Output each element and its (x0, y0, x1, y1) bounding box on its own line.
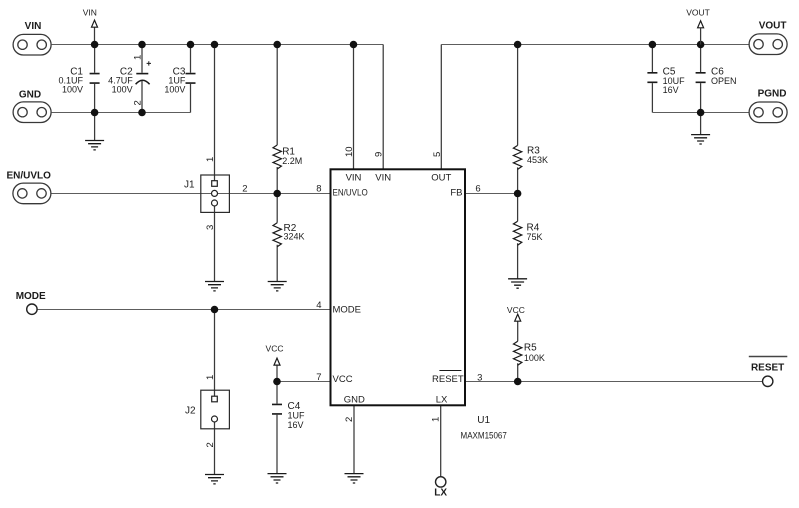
jumper J2 (201, 390, 230, 429)
wire R1 leads (276, 45, 278, 194)
svg-text:VIN: VIN (25, 21, 42, 32)
ground (below J2) (205, 475, 224, 484)
svg-text:VCC: VCC (266, 344, 284, 354)
svg-text:RESET: RESET (432, 374, 464, 385)
label R1 value (282, 147, 302, 166)
svg-text:7: 7 (316, 372, 321, 383)
svg-text:R5: R5 (524, 342, 537, 353)
ground (below U1 GND pin) (345, 474, 364, 483)
wire MODE to J2 pin1 (214, 310, 216, 397)
wire FB net pin 6 (465, 193, 518, 195)
svg-text:PGND: PGND (758, 89, 787, 100)
resistor R1 (273, 145, 281, 169)
ground (below C4) (268, 474, 287, 483)
power symbol VCC (R5) (515, 314, 521, 321)
wire R4 leads (517, 194, 519, 279)
capacitor C6 (696, 73, 706, 83)
wire VCC net to pin 7 (277, 381, 331, 383)
svg-text:1UF: 1UF (288, 411, 306, 421)
svg-text:FB: FB (450, 188, 462, 199)
wire J1 pin1 to VIN rail (214, 45, 216, 182)
wire C2 leads (141, 45, 143, 113)
svg-text:VIN: VIN (346, 173, 362, 184)
svg-text:RESET: RESET (751, 362, 784, 373)
svg-text:1: 1 (205, 157, 216, 162)
wire pin 2 GND to ground (353, 406, 355, 474)
label C2 value (108, 67, 133, 95)
node RESET / R5 (514, 378, 522, 386)
label R4 value (527, 222, 543, 242)
capacitor C4 (272, 404, 282, 414)
connector VOUT (749, 34, 787, 55)
svg-text:MODE: MODE (16, 291, 46, 302)
label C3 value (164, 67, 186, 95)
svg-text:MODE: MODE (333, 305, 362, 316)
capacitor C3 (186, 74, 196, 84)
svg-text:8: 8 (316, 184, 321, 195)
node VIN rail / C2 (138, 41, 146, 49)
svg-text:100V: 100V (112, 84, 133, 94)
resistor R4 (513, 221, 521, 245)
wire C5 leads (651, 45, 653, 113)
label C5 value (663, 67, 686, 96)
node PGND / C6 (697, 109, 705, 117)
resistor R5 (514, 341, 522, 365)
svg-text:LX: LX (434, 487, 447, 498)
node GND rail / C2 (138, 109, 146, 117)
svg-text:2: 2 (205, 442, 216, 447)
label C4 value (288, 401, 306, 430)
wire R2 leads (276, 194, 278, 282)
wire pin 9 to VIN rail (382, 45, 384, 170)
testpoint MODE (27, 304, 37, 314)
svg-text:OUT: OUT (431, 173, 451, 184)
connector PGND (749, 102, 787, 123)
label R5 value (524, 342, 545, 363)
svg-text:3: 3 (477, 372, 482, 383)
capacitor C2 (polarized) (136, 73, 148, 75)
label C6 value (711, 67, 737, 87)
connector VIN (13, 34, 51, 55)
svg-text:324K: 324K (284, 232, 305, 242)
resistor R3 (513, 145, 521, 169)
node FB / R3 R4 (514, 190, 522, 198)
label R3 value (527, 145, 548, 165)
node VOUT rail / C6 (697, 41, 705, 49)
wire J1 pin3 to ground (214, 206, 216, 282)
wire C5 bottom to PGND node (652, 112, 700, 114)
svg-text:5: 5 (432, 152, 443, 157)
label C1 value (58, 67, 83, 95)
node GND rail / C1 (91, 109, 99, 117)
svg-text:VOUT: VOUT (759, 21, 787, 32)
svg-text:GND: GND (19, 90, 41, 101)
svg-text:453K: 453K (527, 155, 548, 165)
wire J2 pin2 to ground (214, 422, 216, 475)
svg-text:VCC: VCC (507, 305, 525, 315)
wire MODE net (37, 309, 331, 311)
svg-text:2: 2 (344, 417, 355, 422)
svg-text:1: 1 (133, 55, 144, 60)
svg-text:100V: 100V (62, 84, 83, 94)
power symbol VIN (92, 20, 98, 27)
ground (below R2) (268, 282, 287, 291)
connector GND (13, 102, 51, 123)
svg-text:2: 2 (242, 184, 247, 195)
svg-text:16V: 16V (663, 85, 679, 95)
svg-text:MAXM15067: MAXM15067 (461, 431, 507, 442)
resistor R2 (273, 223, 281, 247)
node VIN rail / R1 (273, 41, 281, 49)
svg-text:OPEN: OPEN (711, 76, 737, 86)
svg-text:EN/UVLO: EN/UVLO (7, 171, 52, 182)
svg-text:3: 3 (205, 225, 216, 230)
svg-text:100V: 100V (164, 84, 185, 94)
wire R5 leads (517, 321, 519, 381)
connector EN/UVLO (13, 183, 51, 204)
ground (below J1) (205, 282, 224, 291)
svg-text:75K: 75K (527, 232, 543, 242)
node VIN rail / J1 (211, 41, 219, 49)
wire VOUT rail (441, 44, 749, 46)
testpoint RESET (763, 376, 773, 386)
wire C4 leads (276, 382, 278, 474)
svg-text:VCC: VCC (333, 374, 353, 385)
ground (below C1) (85, 141, 104, 150)
capacitor C1 (90, 74, 100, 84)
capacitor C5 (647, 73, 657, 83)
svg-text:10: 10 (344, 146, 355, 157)
node VIN rail / pin 10 (350, 41, 358, 49)
node VOUT rail / C5 (649, 41, 657, 49)
power symbol VCC (C4) (274, 358, 280, 365)
node VIN rail / C3 (187, 41, 195, 49)
wire R3 leads (517, 45, 519, 194)
ground (below C6 / PGND) (691, 135, 710, 144)
svg-text:VIN: VIN (83, 8, 97, 18)
testpoint LX (436, 477, 446, 487)
svg-text:EN/UVLO: EN/UVLO (333, 188, 368, 199)
svg-text:LX: LX (436, 395, 448, 406)
svg-text:J2: J2 (185, 406, 196, 417)
power symbol VOUT (698, 21, 704, 28)
label R2 value (284, 223, 305, 242)
wire EN/UVLO net (51, 193, 330, 195)
wire pin 1 LX to testpoint (440, 406, 442, 477)
svg-text:U1: U1 (477, 415, 490, 426)
svg-text:VOUT: VOUT (686, 7, 710, 17)
node VIN rail / C1 (91, 41, 99, 49)
wire pin 10 to VIN rail (353, 45, 355, 170)
svg-text:16V: 16V (288, 420, 304, 430)
svg-text:GND: GND (344, 395, 365, 406)
node VCC / C4 (273, 378, 281, 386)
wire C6 leads (700, 45, 702, 135)
wire VIN top rail (52, 44, 384, 46)
svg-text:6: 6 (475, 184, 480, 195)
wire VIN symbol stem (94, 27, 96, 44)
wire C3 leads (190, 45, 192, 113)
node VOUT rail / R3 (514, 41, 522, 49)
wire VCC symbol stem (276, 365, 278, 381)
wire GND rail (52, 112, 191, 114)
svg-text:2.2M: 2.2M (282, 156, 302, 166)
wire C1 leads (94, 45, 96, 141)
jumper J1 (201, 175, 230, 212)
wire pin 5 riser (440, 45, 442, 170)
svg-text:J1: J1 (184, 180, 195, 191)
node EN/UVLO / R1 R2 (273, 190, 281, 198)
wire PGND net (701, 112, 750, 114)
svg-text:VIN: VIN (375, 173, 391, 184)
svg-text:100K: 100K (524, 353, 545, 363)
svg-text:1: 1 (205, 375, 216, 380)
IC U1 MAXM15067 body (331, 169, 466, 405)
svg-text:2: 2 (133, 100, 144, 105)
svg-text:1: 1 (431, 417, 442, 422)
node MODE / J2 (211, 306, 219, 314)
svg-text:4: 4 (316, 300, 321, 311)
ground (below R4) (508, 279, 527, 288)
svg-text:9: 9 (374, 152, 385, 157)
wire RESET net pin 3 (465, 381, 763, 383)
